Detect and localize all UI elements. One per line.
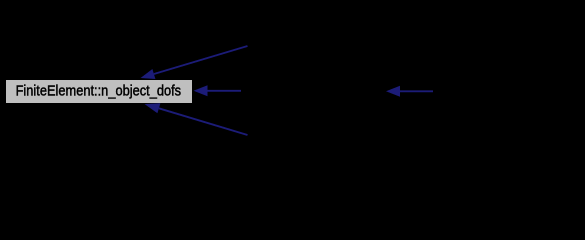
- svg-text:FiniteElement::n_object_dofs: FiniteElement::n_object_dofs: [16, 83, 182, 99]
